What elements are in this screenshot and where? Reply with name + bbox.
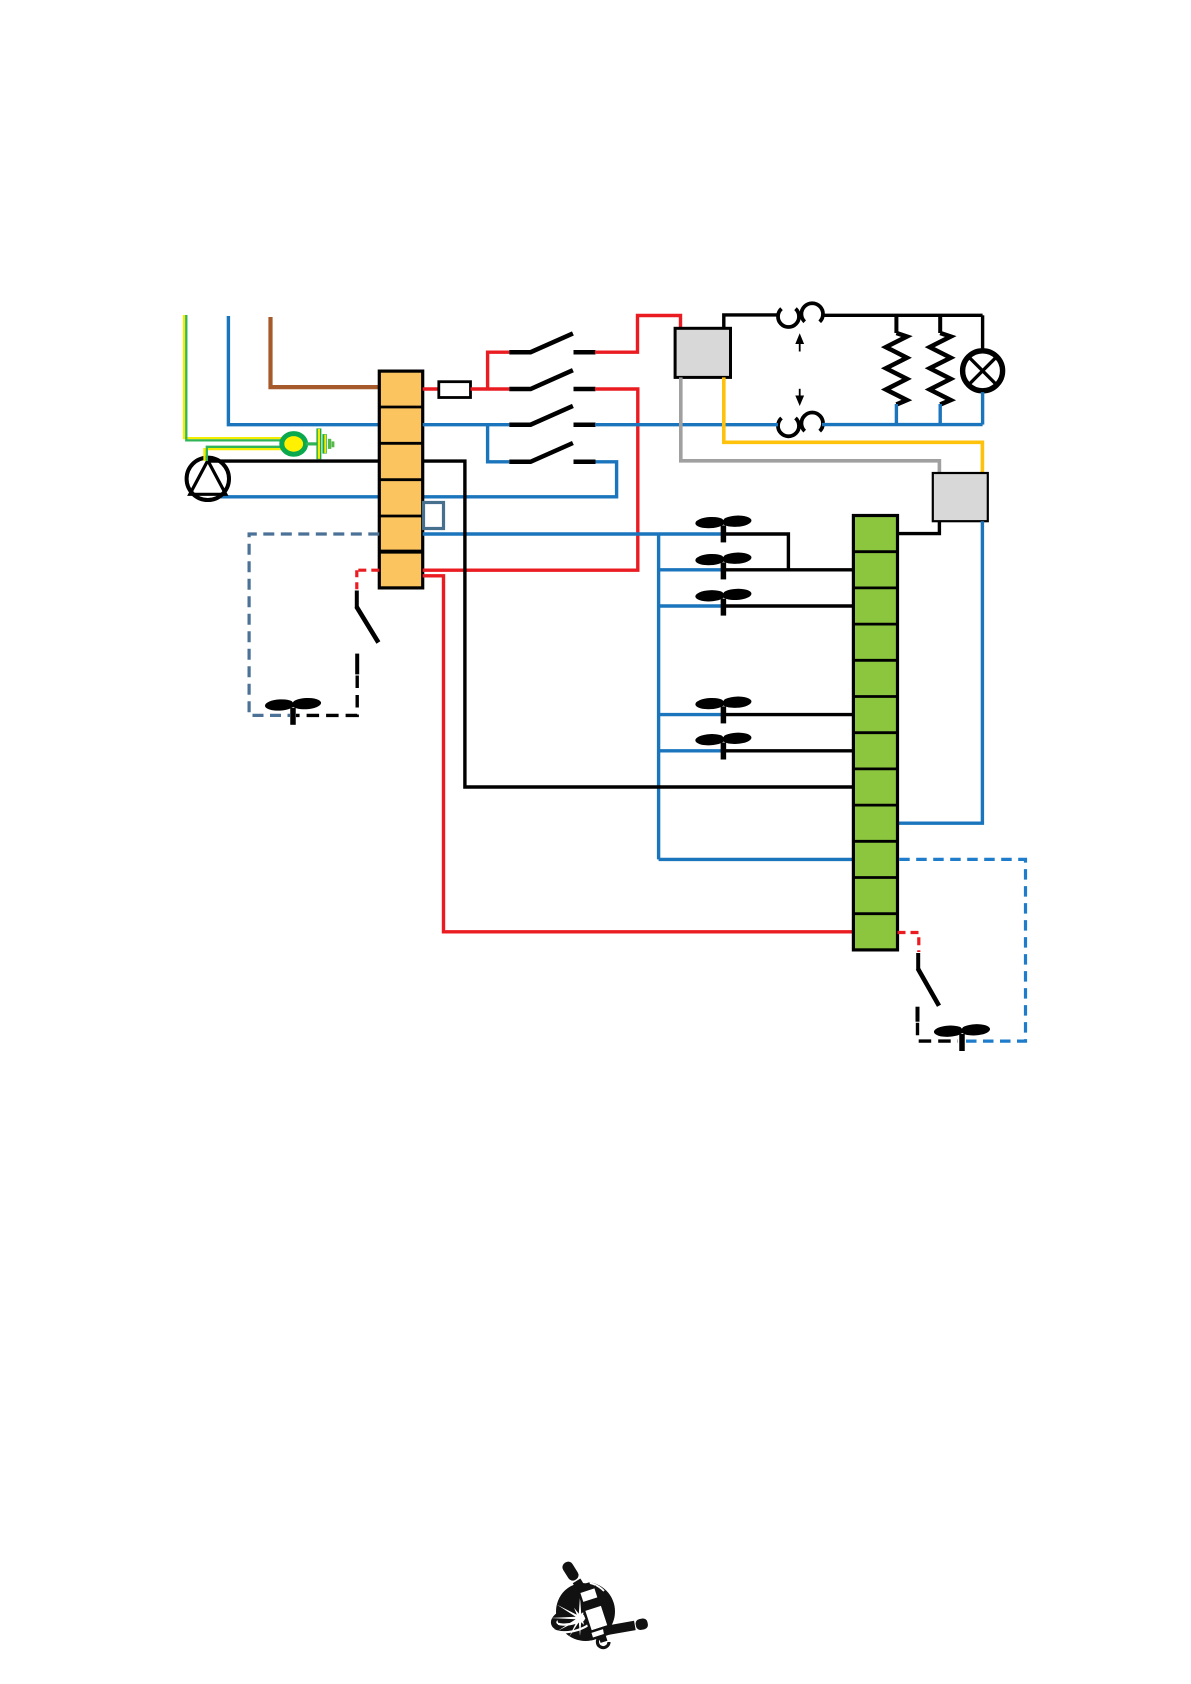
arrow up (795, 333, 804, 351)
spark plug lamp (green ring, yellow core) (282, 434, 306, 455)
logo spark plug body (575, 1580, 614, 1645)
thermal switch (left) (356, 591, 378, 675)
wire brown from top-left to connector (271, 317, 380, 387)
wire red switch 1 to CDI box (595, 316, 681, 353)
spark plug gap comb (ground bars) (319, 428, 333, 459)
wire black X1 pin3 to X2 pin8 (423, 461, 854, 787)
wire blue bus to injector 5 (659, 749, 721, 752)
regulator U2 (gray box) (933, 473, 988, 521)
CENTER (249, 461, 897, 950)
wire blue bus to injector 4 (659, 713, 721, 716)
dashed red X2 pin12 to thermal switch (right) (898, 933, 919, 953)
wire red branch up to switch 1 (488, 352, 510, 389)
logo base circle (556, 1582, 615, 1641)
WIRES-LEFT (184, 315, 617, 588)
SWITCH-BANK (423, 316, 681, 571)
wire red switch 2 down to X1 pin 6 (423, 389, 638, 570)
wire black injector4 to X2 pin6 (725, 713, 853, 716)
connector block X2 (green, 12 cells) (853, 516, 897, 950)
fan motor symbol (left) (265, 697, 322, 725)
coupling coil top (778, 303, 823, 327)
wire blue switch 3 to lamp bus (595, 423, 778, 426)
injector symbol 4 (695, 695, 752, 723)
wire blue bus vertical (657, 534, 660, 859)
wire green-yellow pump stub overlay (205, 448, 207, 461)
wire yellow CDI to regulator (724, 377, 983, 473)
logo rim highlight (557, 1582, 604, 1600)
resistor R2 (930, 315, 951, 424)
wire blue X1 pin5 to injector 1 (423, 532, 721, 535)
wire green-yellow earth from top-left (184, 315, 283, 440)
TOP-RIGHT (595, 303, 1003, 823)
wire green-yellow stub to fuel pump (205, 447, 284, 460)
wire black injector5 to X2 pin7 (725, 749, 853, 752)
switch S4 (509, 443, 595, 462)
LOGO (550, 1560, 649, 1648)
logo ring band front (555, 1615, 594, 1632)
wire blue branch down to switch 4 (488, 425, 510, 462)
resistor R1 (886, 315, 907, 424)
fuel pump symbol (circle with triangle) (187, 458, 229, 500)
fan motor symbol (right) (934, 1023, 991, 1051)
injector symbol 1 (695, 514, 752, 542)
dashed blue wire X1 pin5 to fan switch loop (left) (249, 534, 379, 715)
dashed red down to thermal switch (355, 570, 358, 589)
injector symbol 3 (695, 588, 752, 616)
wire blue bus bottom to X2 pin10 (659, 858, 854, 861)
wire black pump to connector pin 3 (206, 459, 379, 462)
switch S1 (509, 333, 595, 352)
CDI unit U1 (gray box) (675, 328, 730, 377)
wire blue regulator to X2 pin9 (898, 521, 983, 823)
lamp L1 (circle with X) (963, 315, 1003, 424)
switch S2 (509, 370, 595, 389)
wire blue X1 pin2 to switch 3 (423, 423, 510, 426)
connector block X1 (orange, 6 cells) (379, 371, 422, 588)
wire red X1 pin6 to X2 pin12 (423, 576, 854, 932)
switch S3 (509, 406, 595, 425)
fuse F1 (439, 382, 471, 398)
dashed red X1 pin6 left (357, 569, 380, 572)
wire black injector3 to X2 pin3 (725, 604, 853, 607)
wire blue bus to injector 3 (659, 604, 721, 607)
wire black injector1 to junction (725, 534, 788, 570)
injector symbol 2 (695, 551, 752, 579)
logo bottom hook (597, 1637, 609, 1648)
logo starburst (550, 1596, 586, 1637)
wire blue pump bottom to switch 4 (213, 462, 617, 497)
wire blue bus to injector 2 (659, 568, 721, 571)
wire black CDI to HT coil (724, 315, 778, 328)
spark plug electrode link (306, 442, 317, 445)
wire gray CDI to regulator (681, 377, 940, 473)
wire black regulator to X2 pin1 (898, 521, 940, 533)
logo ring band back (551, 1604, 595, 1633)
arrow down (795, 389, 804, 406)
dashed blue fan motor to X2 pin10 (898, 859, 1026, 1041)
small connector tab (dark blue) at X1 right (424, 503, 444, 529)
wire red fuse to switch bank (471, 387, 510, 390)
injector symbol 5 (695, 732, 752, 760)
dashed black thermal switch to fan motor (right) (918, 1023, 959, 1041)
wire black injector2 to X2 pin2 (725, 568, 853, 571)
wire red X1 pin1 to fuse (423, 387, 439, 390)
BOTTOM (898, 859, 1026, 1051)
dashed black thermal switch to fan motor (296, 676, 357, 716)
logo screwdriver handle (561, 1560, 593, 1601)
logo handlebar grip (602, 1618, 648, 1637)
thermal switch (right) (918, 953, 940, 1022)
wire blue from top-left to connector (228, 316, 379, 425)
coupling coil bottom (778, 413, 823, 437)
wire black HT bus to lamp (823, 314, 983, 317)
